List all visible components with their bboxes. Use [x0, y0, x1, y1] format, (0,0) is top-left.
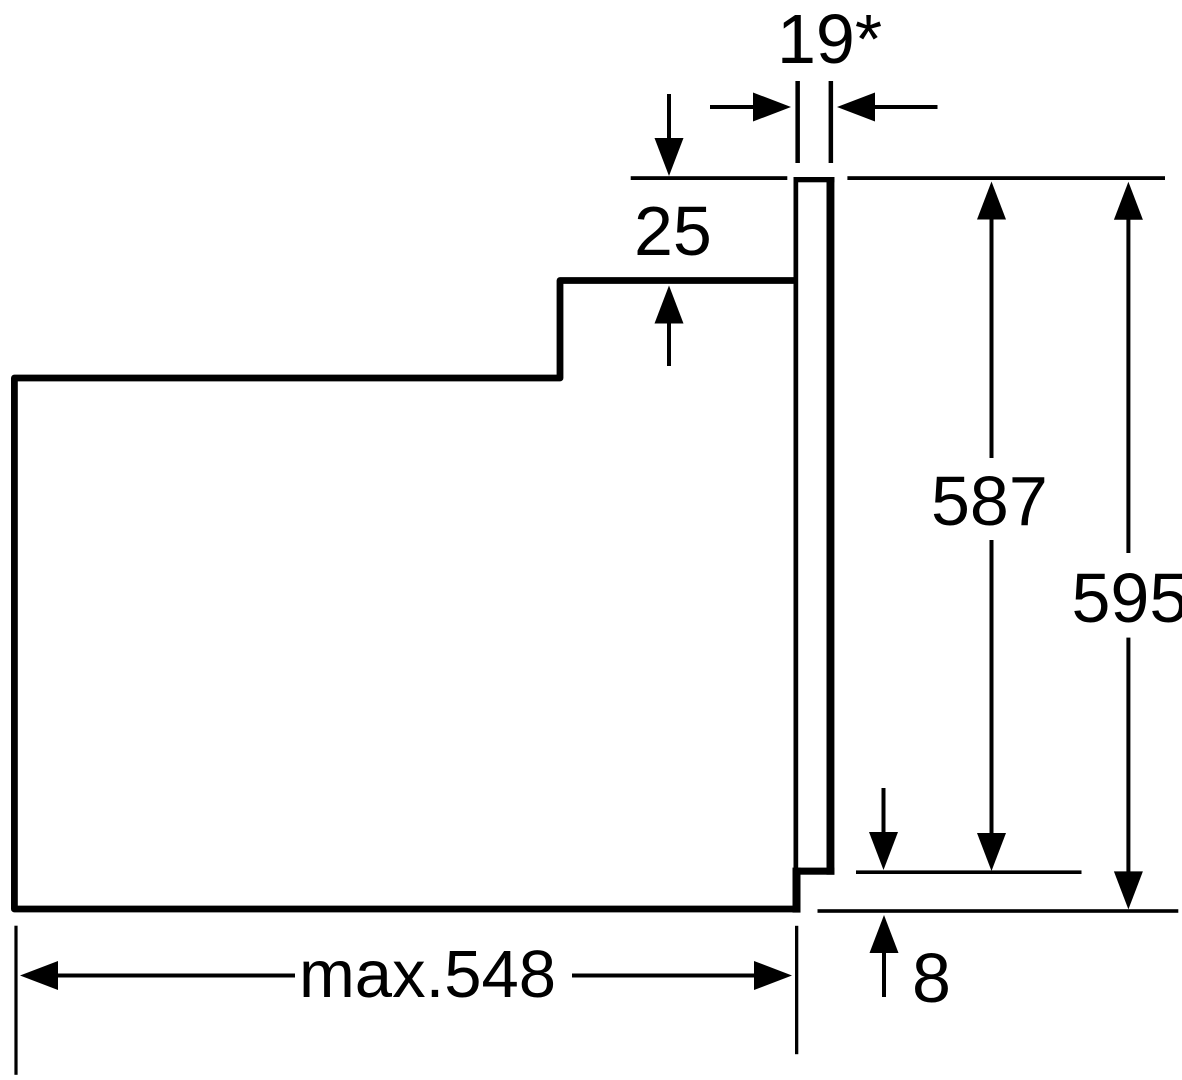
- svg-text:8: 8: [912, 939, 951, 1017]
- dim line 587 down arrow: [990, 540, 994, 836]
- svg-text:19*: 19*: [777, 0, 882, 78]
- dim line 595 up arrow: [1114, 182, 1143, 220]
- niche top line left segment: [631, 176, 788, 180]
- niche top line right segment: [847, 176, 1165, 180]
- svg-text:587: 587: [931, 462, 1048, 540]
- dim arrow max548 left: [20, 961, 58, 990]
- door left wall: [794, 177, 799, 876]
- dim arrow 25 down: [667, 94, 671, 141]
- max548 left extension line: [14, 926, 17, 1075]
- dim line 587 up arrow: [977, 182, 1006, 220]
- dim arrow 25 up: [667, 320, 671, 366]
- svg-text:max.548: max.548: [299, 937, 556, 1012]
- door bottom level extension line: [856, 870, 1082, 874]
- door bottom: [794, 868, 835, 875]
- door-to-body connector: [793, 868, 801, 913]
- dim line 595 down arrow: [1126, 638, 1130, 874]
- svg-text:595: 595: [1072, 559, 1182, 637]
- dim arrow max548 right: [572, 974, 756, 978]
- dim arrow 8 up: [870, 915, 899, 953]
- dim arrow 19 pointing right: [710, 105, 755, 109]
- dim arrow 19 pointing left: [874, 105, 938, 109]
- 19 left extension line: [795, 81, 800, 163]
- body bottom level extension line: [818, 909, 1179, 913]
- oven body outline: [14, 281, 799, 910]
- door right wall: [827, 177, 835, 875]
- 19 right extension line: [829, 81, 834, 163]
- max548 right extension line: [795, 926, 798, 1054]
- dim arrow 8 down: [882, 788, 886, 834]
- door top: [794, 177, 835, 182]
- svg-text:25: 25: [634, 192, 712, 270]
